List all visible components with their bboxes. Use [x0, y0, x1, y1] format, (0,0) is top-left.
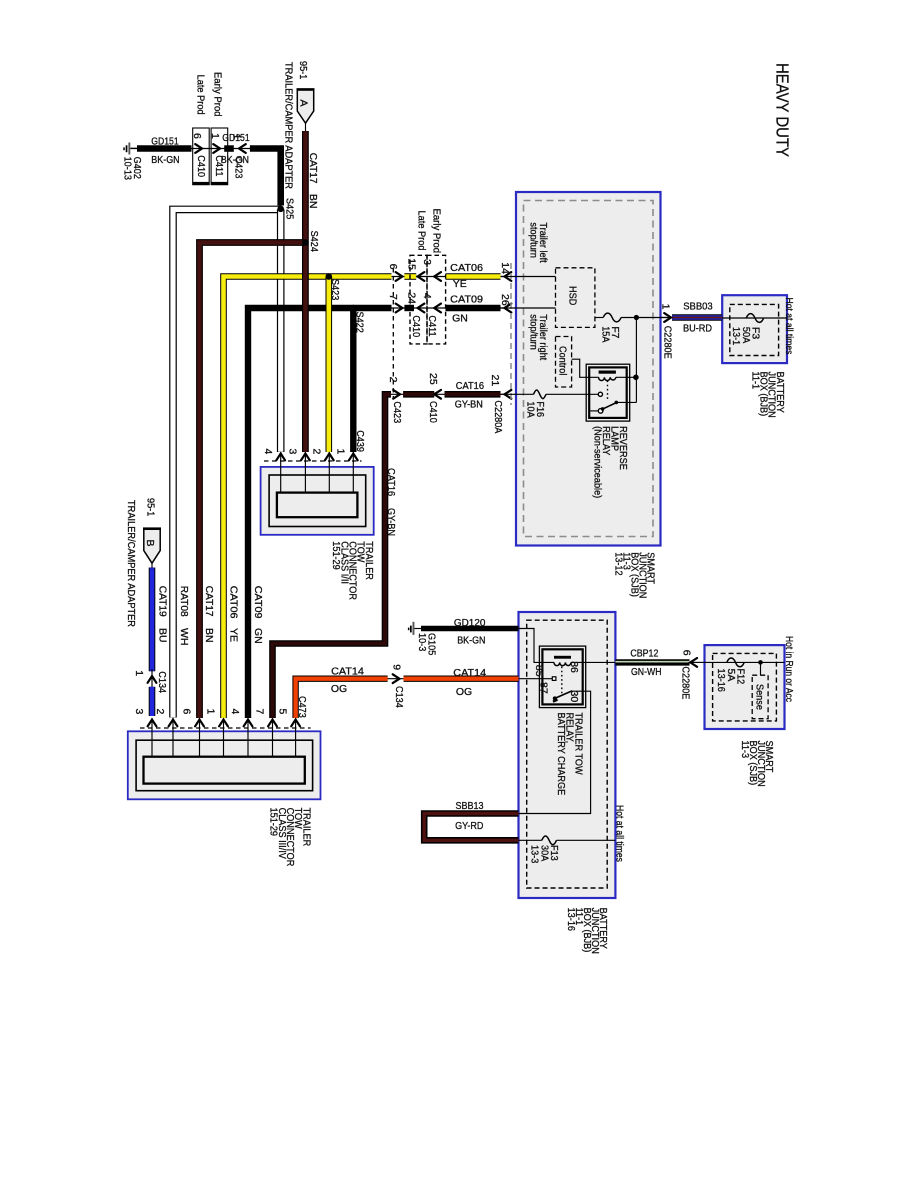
pin 6 label C410 [191, 133, 203, 139]
title HEAVY DUTY [773, 63, 793, 157]
ground G402 label [122, 157, 143, 181]
svg-text:CAT16: CAT16 [456, 380, 484, 392]
wire CAT16 GY-BN block [403, 391, 434, 398]
label CAT14 right [453, 667, 486, 679]
svg-text:1: 1 [205, 709, 217, 715]
pin 4 label lower [229, 709, 241, 715]
arrow SJB pin 26 CAT09 [505, 304, 512, 313]
Sense box [752, 675, 768, 719]
trailer tow battery charge relay box [539, 646, 585, 708]
svg-text:CAT19: CAT19 [156, 586, 168, 617]
svg-text:WH: WH [178, 628, 190, 646]
wire CAT09 GN main [248, 308, 392, 718]
svg-text:BN: BN [307, 194, 319, 209]
trailer tow connector class I/II box [261, 467, 374, 535]
wire CAT19 BU upper [149, 568, 156, 672]
svg-text:S423: S423 [329, 279, 341, 300]
svg-text:6: 6 [181, 709, 193, 715]
label BATTERY JUNCTION BOX BJB 11-1 13-16 [565, 908, 609, 954]
label OG left [331, 683, 347, 695]
pin 24 label [405, 292, 417, 304]
label CAT17 (left) [203, 586, 215, 617]
battery junction box BJB2 outline [519, 612, 616, 898]
connector C410 arrow pin 6 [195, 144, 202, 153]
connector C423 arrow pin 1 (GD151) [239, 144, 246, 153]
wire CAT14 OG right [404, 676, 519, 682]
relay coil core bar [599, 371, 616, 374]
arrow C411 pin 3 CAT06 [434, 272, 441, 281]
svg-text:C134: C134 [393, 686, 405, 708]
pin 2 label upper [311, 449, 323, 455]
svg-text:YE: YE [227, 628, 239, 642]
pin 25 label [427, 373, 439, 385]
arrow C410 pin 25 CAT16 [434, 390, 441, 399]
svg-text:YE: YE [453, 278, 467, 290]
label C423 [232, 157, 244, 179]
svg-text:GN: GN [452, 313, 468, 325]
svg-text:C2280E: C2280E [661, 326, 673, 359]
label Sense [753, 684, 765, 710]
label Early Prod (mid) [430, 209, 442, 254]
pin 2 label [387, 377, 399, 383]
svg-text:CAT16: CAT16 [385, 468, 397, 496]
svg-text:BU-RD: BU-RD [683, 323, 712, 335]
svg-text:C411: C411 [426, 315, 438, 336]
svg-text:151-29: 151-29 [268, 808, 280, 837]
connector C411 arrow pin 1 [213, 144, 220, 153]
wire CAT09 inside SJB [501, 307, 556, 309]
label GN (left) [252, 628, 264, 644]
pin 6 label [387, 264, 399, 270]
svg-text:13-1: 13-1 [730, 327, 742, 345]
svg-text:A: A [297, 100, 309, 107]
splice block on GD151 [224, 145, 234, 152]
connector C134 arrow on CAT14 [393, 674, 400, 683]
wire F13 to edge [557, 839, 616, 841]
wire F16 to relay contact [546, 393, 598, 395]
wire CAT06 YE right segment [446, 273, 501, 280]
wire CAT06 YE block [404, 273, 416, 280]
svg-text:Early Prod: Early Prod [211, 72, 223, 117]
svg-text:CAT17: CAT17 [307, 153, 319, 184]
connector B flag [143, 527, 161, 568]
svg-text:Late Prod: Late Prod [194, 75, 206, 115]
pin 3 label lower [133, 709, 145, 715]
connector C134 on CAT19 [148, 676, 157, 683]
svg-text:GN: GN [252, 628, 264, 644]
pin 1 label C411 [209, 133, 221, 139]
svg-text:Early Prod: Early Prod [430, 209, 442, 254]
svg-text:C2280E: C2280E [679, 666, 691, 699]
wire CAT16 GY-BN right segment [445, 391, 501, 398]
wire pin 30 to SBB13 [519, 691, 591, 813]
wire CAT09 GN branch from S422 [350, 308, 356, 452]
svg-text:Hot in Run or Acc: Hot in Run or Acc [783, 636, 795, 702]
label C410 (CAT16) [427, 401, 439, 423]
wire CAT06 inside SJB [501, 276, 556, 278]
fuse F7 [603, 313, 621, 322]
label CAT09 [450, 294, 483, 306]
svg-text:C410: C410 [410, 315, 422, 337]
svg-text:13-16: 13-16 [565, 908, 577, 932]
label SBB13 [456, 800, 484, 812]
label SMART JUNCTION BOX SJB 11-3 13-12 [612, 552, 656, 598]
svg-text:HEAVY DUTY: HEAVY DUTY [773, 63, 793, 157]
svg-text:7: 7 [387, 294, 399, 300]
label A in flag [297, 100, 309, 107]
wire CAT17 BN from connector A [302, 131, 309, 452]
relay coil [599, 377, 616, 380]
label GD151 right [222, 132, 250, 144]
relay2 actuation dotted line [561, 667, 563, 694]
svg-text:OG: OG [456, 686, 472, 698]
svg-text:1: 1 [335, 449, 347, 455]
label BN (left) [203, 628, 215, 643]
pin 15 label [405, 258, 417, 270]
svg-text:CAT09: CAT09 [450, 294, 483, 306]
label RAT08 [178, 586, 190, 617]
label B in flag [144, 540, 156, 547]
pin 2 label lower [154, 709, 166, 715]
svg-text:6: 6 [680, 650, 692, 656]
pin 14 label [499, 262, 511, 274]
svg-text:CAT09: CAT09 [252, 586, 264, 619]
label C410 [195, 155, 207, 177]
svg-text:C410: C410 [195, 155, 207, 177]
svg-text:BATTERY CHARGE: BATTERY CHARGE [555, 713, 567, 796]
wire GD151 BK-GN right segment to S425 [250, 149, 281, 206]
svg-text:CBP12: CBP12 [630, 648, 658, 660]
junction at F7 output [634, 315, 639, 320]
svg-text:1: 1 [659, 304, 671, 310]
label Hot in Run or Acc [783, 636, 795, 702]
label YE [453, 278, 467, 290]
label REVERSE LAMP RELAY [592, 426, 629, 498]
svg-text:21: 21 [489, 375, 501, 387]
label GD120 [454, 617, 486, 629]
label BK-GN (GD120) [457, 635, 485, 647]
svg-text:10-3: 10-3 [416, 633, 428, 651]
upper connector pin stubs [281, 452, 354, 493]
splice S422 [350, 305, 365, 333]
svg-text:86: 86 [568, 661, 580, 673]
lower connector pin stubs [152, 718, 296, 757]
label HSD [566, 286, 578, 306]
svg-text:11-3: 11-3 [739, 741, 751, 759]
svg-text:11-1: 11-1 [749, 372, 761, 390]
splice S424 [302, 231, 320, 252]
fuse F13 [542, 836, 557, 845]
svg-text:2: 2 [387, 377, 399, 383]
label C411 (mid) [426, 315, 438, 336]
svg-text:3: 3 [133, 709, 145, 715]
label CAT06 (left) [227, 586, 239, 619]
pin 4 label upper [262, 449, 274, 455]
label WH [178, 628, 190, 646]
svg-text:GY-RD: GY-RD [455, 820, 484, 832]
label GY-BN (vertical wire) [385, 508, 397, 536]
label CAT17 (A wire) [307, 153, 319, 184]
svg-text:C2280A: C2280A [492, 400, 504, 433]
svg-text:151-29: 151-29 [330, 541, 342, 570]
pin 3 label upper [286, 449, 298, 455]
svg-text:9: 9 [390, 664, 402, 670]
svg-text:S422: S422 [353, 312, 365, 333]
pin 85 label [533, 665, 545, 677]
pin 7 label lower [254, 709, 266, 715]
label OG right [456, 686, 472, 698]
label TRAILER/CAMPER ADAPTER (A) [282, 62, 294, 189]
wire Control to relay coil [572, 359, 599, 377]
label BK-GN left [151, 154, 179, 166]
label GD151 left [151, 136, 179, 148]
label GY-BN [455, 399, 483, 411]
connector C411 box (GD151) [211, 128, 228, 185]
label BK-GN right [221, 154, 249, 166]
svg-text:GD120: GD120 [454, 617, 486, 629]
svg-text:GN-WH: GN-WH [631, 666, 662, 678]
wire F7 junction down to relay [635, 318, 637, 403]
reverse lamp relay box [586, 364, 630, 421]
arrow pin 6 lower connector [195, 720, 204, 727]
label C2280A [492, 400, 504, 433]
svg-text:HSD: HSD [566, 286, 578, 306]
label C134 (CAT14) [393, 686, 405, 708]
ground G105 label [416, 633, 437, 655]
label C410 (mid) [410, 315, 422, 337]
svg-text:4: 4 [262, 449, 274, 455]
relay fixed contact [598, 392, 602, 396]
svg-text:GY-BN: GY-BN [455, 399, 483, 411]
svg-text:TRAILER/CAMPER ADAPTER: TRAILER/CAMPER ADAPTER [282, 62, 294, 189]
label SMART JUNCTION BOX SJB 11-3 (SJB2) [739, 741, 775, 787]
svg-text:5: 5 [277, 709, 289, 715]
label TRAILER/CAMPER ADAPTER (B) [125, 500, 137, 627]
label TRAILER TOW CONNECTOR CLASS I/II 151-29 [330, 541, 375, 600]
wire RAT08 WH down branch [277, 209, 285, 452]
connector C134 dashed face [140, 727, 311, 729]
relay actuation dotted line [607, 381, 609, 401]
wire CAT06 YE main [224, 277, 392, 719]
label F12 5A 13-16 [715, 669, 746, 693]
fuse F16 [534, 390, 547, 399]
svg-text:SBB03: SBB03 [683, 301, 713, 313]
label BU [156, 628, 168, 643]
svg-text:95-1: 95-1 [297, 61, 309, 79]
svg-text:3: 3 [286, 449, 298, 455]
svg-text:BN: BN [203, 628, 215, 643]
label C439 [354, 430, 366, 452]
pin 5 label lower [277, 709, 289, 715]
svg-text:1: 1 [133, 670, 145, 676]
label F16 10A [524, 401, 546, 417]
arrow C2280E pin 6 (CBP12) [689, 658, 705, 667]
pin 1 label C423 [230, 134, 242, 140]
connector C423 dashed line [392, 268, 394, 399]
relay2 switch arm [553, 691, 572, 702]
battery junction box BJB1 outline [722, 295, 787, 363]
svg-text:13-12: 13-12 [612, 552, 624, 576]
pin 6 label lower [181, 709, 193, 715]
wire inside SJB2 [705, 661, 785, 663]
svg-text:13-3: 13-3 [529, 845, 541, 863]
svg-text:2: 2 [311, 449, 323, 455]
arrow pin 3 upper connector [301, 454, 310, 461]
label F7 15A [599, 326, 621, 342]
svg-text:13-16: 13-16 [715, 669, 727, 693]
wire GD151 BK-GN left segment [137, 145, 192, 152]
svg-text:14: 14 [499, 262, 511, 274]
svg-text:7: 7 [254, 709, 266, 715]
svg-text:Late Prod: Late Prod [415, 211, 427, 251]
arrow C410 pin 15 CAT06 [418, 272, 425, 281]
pin 6 label (C2280E) [680, 650, 692, 656]
label Early Prod (top left) [211, 72, 223, 117]
label CBP12 [630, 648, 658, 660]
wire SBB13 GY-RD [424, 814, 518, 841]
label C473 [296, 696, 308, 718]
ground G105 [408, 622, 421, 635]
HSD box [556, 268, 595, 328]
trailer tow connector class III/IV box [128, 731, 321, 799]
label Hot at all times (BJB2) [613, 805, 625, 862]
svg-text:BK-GN: BK-GN [221, 154, 249, 166]
svg-text:S425: S425 [283, 198, 295, 219]
wire GD120 inside BJB2 [519, 629, 555, 663]
arrow pin 4 upper connector [276, 454, 285, 461]
label 95-1 (A) [297, 61, 309, 79]
wire coil to CBP12 [571, 661, 615, 663]
svg-text:1: 1 [209, 133, 221, 139]
arrow SJB pin 1 exit [661, 313, 673, 322]
arrow SJB pin 21 CAT16 [505, 390, 512, 399]
svg-text:2: 2 [154, 709, 166, 715]
svg-text:GY-BN: GY-BN [385, 508, 397, 536]
label GN [452, 313, 468, 325]
wire RAT08 WH left branch [173, 209, 281, 717]
svg-text:stop/turn: stop/turn [528, 222, 540, 258]
label CAT19 [156, 586, 168, 617]
arrow C411 pin 4 CAT09 [434, 304, 441, 313]
svg-text:BU: BU [156, 628, 168, 643]
Control box [556, 337, 572, 388]
relay2 coil core bar [554, 656, 571, 659]
arrow SJB pin 14 CAT06 [505, 272, 512, 281]
label Late Prod (mid) [415, 211, 427, 251]
pin 1 label C134 [133, 670, 145, 676]
svg-text:Hot at all times: Hot at all times [613, 805, 625, 862]
fuse F3 [746, 314, 764, 323]
svg-text:CAT14: CAT14 [453, 667, 486, 679]
svg-text:C134: C134 [156, 671, 168, 693]
svg-text:3: 3 [421, 259, 433, 265]
svg-text:CAT17: CAT17 [203, 586, 215, 617]
label C2280E (SBB03) [661, 326, 673, 359]
label GY-RD [455, 820, 484, 832]
pin 1 label upper [335, 449, 347, 455]
label 95-1 (B) [144, 498, 156, 516]
svg-text:BK-GN: BK-GN [151, 154, 179, 166]
wire CAT14 OG thin at C134 [386, 678, 405, 680]
arrow C410 pin 24 CAT09 [418, 304, 425, 313]
connector face dashed line at SJB [510, 263, 512, 405]
wire CAT06 YE branch from S423 [325, 277, 332, 453]
svg-text:Control: Control [557, 346, 569, 375]
svg-text:stop/turn: stop/turn [528, 314, 540, 350]
connector A flag [297, 88, 315, 131]
arrow pin 5 lower connector [291, 720, 300, 727]
label GN-WH [631, 666, 662, 678]
svg-text:C439: C439 [354, 430, 366, 452]
wire F16 row inside SJB [501, 393, 534, 395]
svg-text:C410: C410 [427, 401, 439, 423]
label BATTERY JUNCTION BOX BJB 11-1 [749, 372, 786, 418]
wire CAT09 GN right segment [446, 305, 501, 311]
wire CAT16 GY-BN thin line [391, 393, 507, 395]
arrow pin 2 lower connector [169, 720, 178, 727]
arrow C423 pin 2 CAT16 [393, 390, 400, 399]
relay switch arm [601, 401, 618, 411]
label F13 30A 13-3 [529, 845, 560, 863]
label YE (left) [227, 628, 239, 642]
wire CAT06 YE thin line [392, 276, 508, 278]
svg-text:B: B [144, 540, 156, 547]
arrow C423 pin 7 CAT09 [396, 304, 403, 313]
label Trailer left stop/turn [528, 222, 549, 262]
svg-text:C473: C473 [296, 696, 308, 718]
splice S423 [326, 273, 341, 300]
fuse F12 [727, 658, 744, 667]
svg-text:GD151: GD151 [222, 132, 250, 144]
svg-text:87: 87 [537, 682, 549, 694]
pin 21 label [489, 375, 501, 387]
svg-text:4: 4 [229, 709, 241, 715]
wire inside BJB1 [722, 317, 787, 319]
pin 30 label [568, 691, 580, 703]
label C134 (CAT19) [156, 671, 168, 693]
label TRAILER TOW CONNECTOR CLASS III/IV 151-29 [268, 808, 313, 867]
wire CAT17 BN branch from S424 [200, 243, 306, 719]
pin 1 label lower [205, 709, 217, 715]
svg-text:15: 15 [405, 258, 417, 270]
label CAT06 [450, 262, 483, 274]
wire SBB13 inside BJB2 [519, 839, 542, 841]
svg-text:TRAILER/CAMPER ADAPTER: TRAILER/CAMPER ADAPTER [125, 500, 137, 627]
wire GD120 BK-GN [421, 626, 519, 632]
svg-text:30: 30 [568, 691, 580, 703]
svg-text:CAT06: CAT06 [450, 262, 483, 274]
label TRAILER TOW RELAY BATTERY CHARGE [555, 713, 585, 796]
arrow C423 pin 6 CAT06 [396, 272, 403, 281]
svg-text:GD151: GD151 [151, 136, 179, 148]
svg-text:24: 24 [405, 292, 417, 304]
pin 1 label (C2280E) [659, 304, 671, 310]
label F3 50A 13-1 [730, 327, 761, 345]
relay2 coil [554, 662, 571, 665]
label BN (A wire) [307, 194, 319, 209]
svg-text:4: 4 [421, 293, 433, 299]
arrow pin 1 lower connector [219, 720, 228, 727]
splice S425 [277, 198, 295, 219]
label Trailer right stop/turn [528, 314, 549, 360]
svg-text:10A: 10A [524, 401, 536, 417]
svg-text:C423: C423 [391, 401, 403, 423]
svg-text:25: 25 [427, 373, 439, 385]
smart junction box SJB outline [516, 192, 661, 546]
svg-text:Hot at all times: Hot at all times [783, 298, 795, 355]
pin 4 label [421, 293, 433, 299]
svg-text:BK-GN: BK-GN [457, 635, 485, 647]
